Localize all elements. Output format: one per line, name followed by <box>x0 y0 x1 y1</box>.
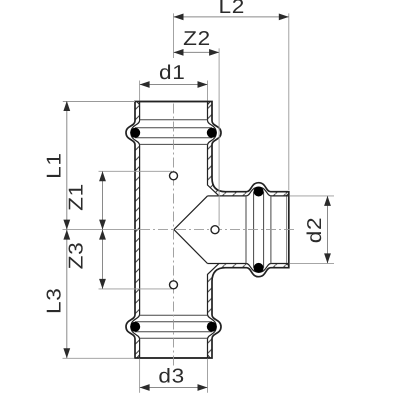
tee fitting body wall cross-section (hatched fill) <box>126 102 289 359</box>
vertical centerline of run <box>173 13 175 368</box>
svg-text:d3: d3 <box>158 365 185 387</box>
O-ring seal, branch socket bottom <box>254 263 264 273</box>
svg-text:L1: L1 <box>44 152 66 179</box>
dimension Z1 line and arrows <box>99 171 106 229</box>
dimension L1 line and arrows <box>63 101 70 230</box>
O-ring seal, bottom socket right <box>207 322 217 332</box>
dimension L3 line and arrows <box>63 230 70 359</box>
horizontal centerline of branch <box>63 229 296 231</box>
extension lines, d3 <box>140 359 208 393</box>
dimension L2 line and arrows <box>174 14 289 21</box>
body outer contour <box>126 102 289 359</box>
extension line, top face <box>63 101 135 103</box>
dimension d3 line and arrows <box>140 384 208 391</box>
svg-text:Z3: Z3 <box>66 242 88 270</box>
insertion-depth marker circle, bottom run <box>170 281 178 289</box>
extension line, Z1 stop depth <box>99 170 173 172</box>
dimension d2 line and arrows <box>324 196 331 264</box>
extension lines, d1 <box>140 81 208 101</box>
top socket O-ring groove lines <box>135 120 212 145</box>
svg-text:d1: d1 <box>159 62 186 84</box>
insertion-depth marker circle, top run <box>170 172 178 180</box>
svg-text:Z2: Z2 <box>183 28 211 50</box>
insertion-depth marker circle, branch <box>211 226 219 234</box>
extension line, bottom face <box>63 357 135 359</box>
extension line, branch end face <box>288 13 290 190</box>
bore interior (white) <box>131 102 289 359</box>
svg-text:d2: d2 <box>304 217 326 244</box>
svg-text:L3: L3 <box>44 287 66 314</box>
branch mouth inner edge line <box>286 197 288 264</box>
O-ring seal, top socket left <box>130 128 140 138</box>
press-bead bands (unhatched S-curve zones of the wall) <box>126 120 271 339</box>
internal cone bore lines <box>174 196 219 264</box>
dimension d1 line and arrows <box>140 81 208 88</box>
svg-text:Z1: Z1 <box>66 183 88 211</box>
O-ring seal, bottom socket left <box>130 322 140 332</box>
extension line, Z2 stop depth <box>218 48 220 225</box>
bottom socket O-ring groove lines <box>135 315 212 338</box>
dimension Z2 line and arrows <box>174 49 220 56</box>
svg-text:L2: L2 <box>219 0 246 18</box>
body inner (bore) contour <box>131 102 289 359</box>
extension line, Z3 stop depth <box>99 288 173 290</box>
dimension Z3 line and arrows <box>99 230 106 289</box>
O-ring seal, branch socket top <box>254 187 264 197</box>
branch socket O-ring groove lines <box>246 192 271 268</box>
O-ring seal, top socket right <box>207 128 217 138</box>
socket mouth chamfers <box>137 102 289 359</box>
extension lines, d2 <box>290 196 334 264</box>
